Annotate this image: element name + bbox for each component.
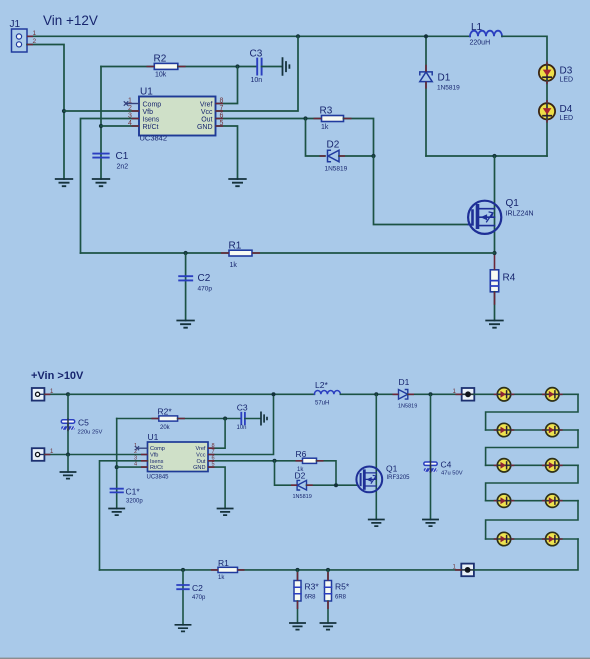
resistor R5* 6R8 [325, 570, 350, 623]
wire row2 [486, 429, 578, 431]
wire link3 [486, 465, 578, 500]
D2 top lead stubs [320, 155, 346, 157]
svg-text:+Vin >10V: +Vin >10V [31, 370, 84, 382]
capacitor C4 47u [424, 394, 463, 519]
connector output top [453, 388, 475, 401]
svg-text:10n: 10n [251, 77, 263, 84]
node Out junction [303, 116, 307, 120]
svg-text:470p: 470p [192, 595, 206, 601]
ground J1/Vfb [56, 179, 73, 186]
connector output lead stubs [455, 394, 462, 570]
wire C3 to ground [245, 418, 261, 420]
wire D2 to gate node bottom [307, 484, 357, 486]
wire connA to rail [44, 393, 68, 395]
node Out junction bottom [273, 459, 277, 463]
pin stubs (maroon component leads) [27, 36, 563, 609]
ground C3 sideways bottom [261, 412, 267, 424]
svg-text:D2: D2 [327, 140, 340, 151]
wire to ground below connB [67, 455, 69, 473]
wire R2* branch vertical [116, 419, 118, 509]
LED DE1 [497, 532, 512, 545]
wire link2 [486, 430, 578, 465]
ground C2 bottom [175, 625, 190, 632]
wire R2 row [101, 66, 154, 68]
wire Vref pin8 [216, 67, 238, 104]
svg-text:1k: 1k [230, 262, 238, 269]
svg-text:UC3842: UC3842 [140, 134, 168, 143]
wire D1 branch vertical [425, 36, 427, 156]
svg-text:J1: J1 [10, 19, 21, 30]
svg-text:C1: C1 [116, 151, 129, 162]
inductor L1 [470, 22, 503, 47]
node rail to Vcc [296, 34, 300, 38]
D1 top lead stubs [425, 65, 427, 89]
wire R2 to C3 [178, 66, 256, 68]
svg-text:IRLZ24N: IRLZ24N [506, 210, 534, 217]
wire top rail from J1 pin1 to L1 [27, 35, 470, 37]
LED DA1 [497, 388, 512, 401]
wire gate line [374, 156, 469, 225]
resistor R1 1k bottom [218, 558, 238, 581]
ground C4 [423, 520, 438, 527]
svg-text:R2: R2 [154, 54, 167, 65]
R2* lead stubs [152, 418, 185, 420]
svg-text:IRF3205: IRF3205 [387, 475, 411, 481]
U1 bottom pin stubs [141, 448, 215, 467]
wire Out pin6 bottom [208, 460, 303, 462]
wire row4 [486, 500, 578, 502]
pin1 Comp stub bottom [135, 447, 147, 450]
wire Vfb to U1 pin2 [64, 110, 139, 112]
wire U1 pin4 [117, 466, 148, 468]
svg-text:GND: GND [193, 465, 205, 471]
svg-text:R3*: R3* [305, 582, 320, 592]
svg-text:C2: C2 [198, 273, 211, 284]
svg-text:D1: D1 [399, 377, 410, 387]
connector J1 [10, 19, 37, 52]
wire R2 branch vertical [100, 67, 102, 180]
node D1 loop to Q1 drain [492, 154, 496, 158]
svg-text:C3: C3 [237, 403, 248, 413]
svg-text:U1: U1 [140, 87, 153, 98]
wire row3 [486, 464, 578, 466]
LED D4 [539, 103, 573, 123]
svg-text:GND: GND [197, 124, 213, 131]
ground C3 sideways [283, 58, 290, 75]
node Vcc rail [272, 392, 276, 396]
LED array lead stubs [494, 394, 563, 539]
resistor R2* 20k [158, 407, 178, 432]
ground C1 [93, 179, 110, 186]
svg-text:L2*: L2* [315, 380, 328, 390]
svg-text:220u 25V: 220u 25V [78, 430, 103, 436]
svg-text:Vfb: Vfb [150, 453, 158, 459]
svg-text:UC3845: UC3845 [147, 475, 170, 481]
wire C2 top bottomckt [182, 570, 184, 625]
R1 bottom lead stubs [211, 569, 245, 571]
diode D2 1N5819 [325, 140, 348, 173]
wire Vref pin8 bottom [208, 419, 225, 449]
LED DD2 [545, 494, 560, 507]
svg-text:Out: Out [201, 116, 212, 123]
LED DA2 [545, 388, 560, 401]
ground Q1 bottom [369, 520, 384, 527]
svg-text:D3: D3 [560, 66, 573, 77]
svg-text:Vcc: Vcc [201, 109, 213, 116]
svg-text:C5: C5 [78, 418, 89, 428]
svg-text:57uH: 57uH [315, 401, 329, 407]
LED D3 [539, 64, 573, 84]
resistor R3 1k [320, 106, 344, 132]
pin1 Comp stub with x [124, 102, 139, 106]
svg-text:C3: C3 [250, 49, 263, 60]
wire Vcc vertical [216, 36, 299, 111]
ground R5* [320, 623, 335, 630]
svg-text:470p: 470p [198, 286, 213, 293]
wire U1 pin3 to left vertical [81, 119, 140, 254]
svg-text:R1: R1 [218, 558, 229, 568]
svg-text:L1: L1 [471, 22, 483, 33]
wire row5 [486, 538, 578, 540]
svg-text:Rt/Ct: Rt/Ct [150, 465, 163, 471]
svg-text:4: 4 [128, 120, 132, 127]
svg-text:4: 4 [134, 462, 137, 468]
transistor Q1 IRF3205 [356, 464, 410, 493]
LED DE2 [545, 532, 560, 545]
svg-text:1N5819: 1N5819 [325, 166, 348, 173]
wire U1 pin3 to left vertical bottom [100, 461, 148, 570]
svg-text:1N5819: 1N5819 [293, 494, 312, 500]
input connector lead stubs [44, 394, 50, 454]
node C4 top [429, 392, 433, 396]
wire +Vin rail [68, 393, 314, 395]
ground R3* [290, 623, 305, 630]
inductor L2* [314, 380, 340, 407]
node C5 top [66, 392, 70, 396]
node C2 bottom [181, 568, 185, 572]
resistor R6 1k [296, 449, 317, 473]
wire Vcc vertical bottom [208, 394, 274, 454]
svg-text:1N5819: 1N5819 [437, 85, 460, 92]
svg-text:C4: C4 [441, 460, 452, 470]
node Q1 source / R1 rail [492, 251, 496, 255]
LED DD1 [497, 494, 512, 507]
wire R2* row [117, 418, 159, 420]
svg-text:C1*: C1* [126, 487, 141, 497]
wire D4 down to bottom loop [546, 119, 548, 156]
svg-text:6R8: 6R8 [305, 595, 317, 601]
svg-text:Comp: Comp [150, 446, 165, 452]
LED DB1 [497, 423, 512, 436]
svg-text:C2: C2 [192, 583, 203, 593]
wire bottom sense rail [100, 569, 462, 571]
connector input A [32, 388, 54, 401]
wire L1 to LED branch corner [502, 36, 547, 65]
capacitor C1* [111, 487, 144, 505]
svg-text:47u 50V: 47u 50V [441, 471, 463, 477]
svg-text:R6: R6 [296, 449, 307, 459]
ground C2 [177, 321, 194, 328]
wire connB to U1 pin2 [44, 454, 147, 456]
svg-text:2: 2 [128, 105, 132, 112]
D2 bottom lead stubs [291, 484, 313, 486]
connector output bottom [453, 564, 474, 577]
svg-text:LED: LED [560, 115, 574, 122]
wire Out pin6 [216, 118, 322, 120]
wire R6 right corner down [317, 461, 337, 485]
wire D3 to D4 [546, 81, 548, 104]
LED DC1 [497, 459, 512, 472]
resistor R3* 6R8 [294, 570, 319, 623]
wire C3 to ground [262, 66, 282, 68]
node C2 [184, 251, 188, 255]
ground U1 pin5 [229, 179, 246, 186]
R2 lead stubs [147, 66, 186, 68]
diode D1 1N5819 bottom [398, 377, 417, 410]
op-amp U1 UC3842 [128, 87, 224, 143]
capacitor C5 220u [61, 394, 102, 454]
svg-text:U1: U1 [148, 432, 159, 442]
wire link4 [486, 501, 578, 539]
svg-text:2n2: 2n2 [117, 164, 129, 171]
wire GND pin5 [216, 126, 238, 179]
svg-text:1k: 1k [321, 124, 329, 131]
node Vref/R2/C3 [235, 64, 239, 68]
wire C2 top [185, 253, 187, 321]
node Q1 drain [374, 392, 378, 396]
svg-text:R5*: R5* [335, 582, 350, 592]
wire bottom loop D1 to LED branch [426, 155, 547, 157]
transistor Q1 IRLZ24N [468, 198, 533, 234]
connector input B [32, 448, 54, 461]
resistor R1 1k [229, 241, 253, 270]
J1 pin stubs [27, 36, 33, 44]
wire D2 branch [306, 119, 326, 157]
node R5* [326, 568, 330, 572]
wire L2 to D1 [340, 393, 398, 395]
svg-text:Comp: Comp [143, 101, 162, 108]
svg-text:R4: R4 [503, 273, 516, 284]
bottom edge line [0, 658, 590, 659]
capacitor C3 [250, 49, 263, 85]
D1 bottom lead stubs [393, 393, 415, 395]
wire U1 pin4 [101, 125, 139, 127]
svg-text:Out: Out [196, 459, 205, 465]
ground U1 pin5 bottom [218, 509, 233, 516]
svg-text:10n: 10n [237, 425, 247, 431]
capacitor C1 [93, 151, 128, 171]
svg-text:1: 1 [33, 30, 37, 37]
node Rt/Ct [99, 124, 103, 128]
node Rt/Ct bottom [115, 465, 119, 469]
svg-text:3: 3 [128, 113, 132, 120]
R3* R5* lead stubs [298, 572, 329, 609]
svg-text:Rt/Ct: Rt/Ct [143, 124, 159, 131]
svg-text:Vref: Vref [200, 101, 213, 108]
wire Out to D2 branch bottom [275, 461, 298, 485]
LED DC2 [545, 459, 560, 472]
capacitor C2 bottom [177, 583, 206, 601]
R1 top lead stubs [221, 252, 260, 254]
svg-text:220uH: 220uH [470, 40, 491, 47]
svg-text:6R8: 6R8 [335, 595, 347, 601]
wire link1 [486, 394, 578, 430]
ground connB [60, 472, 75, 479]
svg-text:D2: D2 [295, 471, 306, 481]
ground Q1/R4 [486, 321, 503, 328]
svg-text:Vcc: Vcc [196, 453, 206, 459]
node Vref bottom [223, 417, 227, 421]
wire D2 to right node [339, 155, 374, 157]
wire Q1 drain-source vertical bottom [375, 394, 377, 519]
wire D1 to output connector [408, 393, 462, 395]
resistor R2 10k [154, 54, 178, 79]
svg-text:20k: 20k [160, 425, 171, 431]
node rail to D1 [424, 34, 428, 38]
R6 lead stubs [296, 460, 324, 462]
svg-text:Vref: Vref [195, 446, 205, 452]
svg-text:LED: LED [560, 77, 574, 84]
wire R1 rail [81, 252, 495, 254]
svg-text:Isens: Isens [150, 459, 164, 465]
D3 D4 LED lead stubs [546, 62, 548, 123]
svg-text:3200p: 3200p [126, 499, 143, 505]
svg-text:R2*: R2* [158, 407, 173, 417]
svg-text:1k: 1k [218, 575, 225, 581]
ground C1* [109, 509, 124, 516]
node Vfb [62, 109, 66, 113]
svg-text:D4: D4 [560, 104, 573, 115]
svg-text:10k: 10k [155, 72, 167, 79]
node R3* [296, 568, 300, 572]
svg-text:Q1: Q1 [386, 464, 398, 474]
op-amp U1 UC3845 [134, 432, 215, 481]
wire R4 to ground [494, 292, 496, 321]
wire R2* to C3 [178, 418, 241, 420]
svg-text:R1: R1 [229, 241, 242, 252]
resistor R4 [490, 270, 515, 292]
R3 lead stubs [314, 118, 352, 120]
diode D1 1N5819 [420, 72, 460, 92]
wire R3 right corner down [344, 119, 374, 157]
svg-text:Vfb: Vfb [143, 109, 154, 116]
wire GND pin5 bottom [208, 467, 225, 508]
capacitor C3 bottom [237, 403, 248, 432]
node C5 bottom [66, 453, 70, 457]
svg-text:1N5819: 1N5819 [398, 404, 417, 410]
R4 lead stubs [494, 255, 496, 305]
diode D2 1N5819 bottom [293, 471, 312, 501]
svg-text:R3: R3 [320, 106, 333, 117]
svg-text:Q1: Q1 [506, 198, 520, 209]
wire row1 [474, 393, 578, 395]
U1 top pin stubs [132, 104, 224, 127]
svg-text:D1: D1 [438, 73, 451, 84]
LED DB2 [545, 423, 560, 436]
node R6/D2 bottom [334, 483, 338, 487]
capacitor C2 [179, 273, 212, 293]
wire Q1 drain-source vertical [494, 156, 496, 253]
wire J1 pin2 to vertical [27, 45, 64, 180]
svg-text:Vin +12V: Vin +12V [43, 13, 98, 28]
node R3/D2 [371, 154, 375, 158]
wire row5 to bottom connector [474, 539, 578, 570]
svg-text:Isens: Isens [143, 116, 160, 123]
